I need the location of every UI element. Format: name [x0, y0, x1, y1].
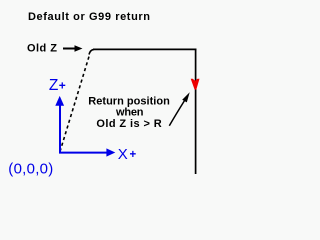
annotation arrow pointing to return position: [169, 92, 189, 126]
wire: Old Z level horizontal line: [93, 48, 196, 50]
red arrowhead pointing down on feed line: [191, 79, 200, 90]
label Z+: [49, 77, 66, 94]
svg-text:Default or G99 return: Default or G99 return: [28, 11, 150, 23]
wire: vertical feed line on right: [195, 49, 197, 175]
svg-text:+: +: [130, 149, 137, 161]
svg-text:Return position: Return position: [88, 95, 170, 107]
svg-text:+: +: [59, 79, 66, 93]
X axis (blue): [59, 148, 115, 156]
label X+: [118, 146, 137, 163]
Z axis (blue): [55, 96, 64, 153]
svg-text:X: X: [118, 146, 128, 163]
svg-text:Old Z is > R: Old Z is > R: [96, 118, 161, 130]
arrow from Old Z label pointing right: [63, 45, 83, 51]
wire: dashed rapid approach line from origin to Old Z level: [60, 49, 94, 151]
svg-text:Old Z: Old Z: [27, 43, 57, 55]
svg-text:(0,0,0): (0,0,0): [8, 161, 53, 178]
svg-text:when: when: [115, 107, 144, 119]
title: Default or G99 return: [28, 11, 150, 23]
svg-text:Z: Z: [49, 77, 58, 94]
label Old Z: [27, 43, 57, 55]
annotation text: Return position when Old Z is > R: [88, 95, 170, 130]
label origin (0,0,0): [8, 161, 53, 178]
